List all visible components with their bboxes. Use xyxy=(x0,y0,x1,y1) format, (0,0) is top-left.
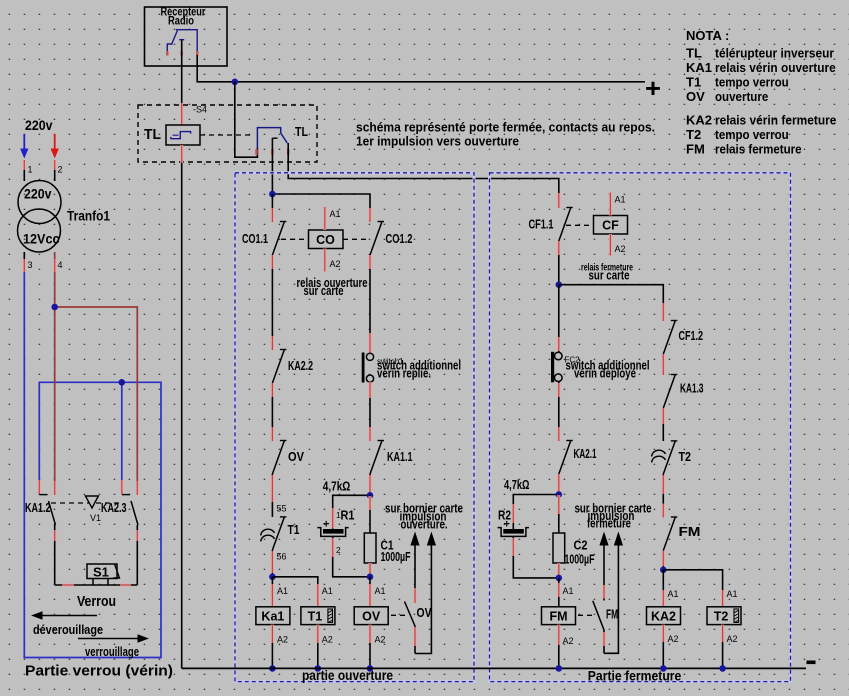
wire junction to CF1.2 branch xyxy=(559,285,664,321)
svg-text:4,7kΩ: 4,7kΩ xyxy=(504,477,530,492)
label Partie verrou (verin) xyxy=(25,663,173,680)
svg-text:A2: A2 xyxy=(668,634,679,644)
wire + bus drop to TL contact xyxy=(235,82,258,157)
arrow verrouillage xyxy=(78,634,149,659)
wire junction to FM coil xyxy=(559,578,574,607)
wire secondary pin 3 xyxy=(24,252,32,272)
svg-text:vérin replié.: vérin replié. xyxy=(377,367,431,381)
svg-text:T1: T1 xyxy=(308,610,323,624)
node junction R1 top xyxy=(333,492,374,529)
relay coil FM xyxy=(542,607,576,625)
svg-text:4,7kΩ: 4,7kΩ xyxy=(323,479,351,494)
dashed link TL coil to contact xyxy=(200,134,253,136)
svg-text:A1: A1 xyxy=(615,195,626,205)
svg-text:KA1.2: KA1.2 xyxy=(25,501,51,515)
dashed link FM coil to aux xyxy=(578,614,593,616)
svg-text:OV: OV xyxy=(417,606,433,620)
wire T2 contact to FM contact xyxy=(662,474,664,518)
wire junction to T2 coil xyxy=(663,570,737,607)
wire Ka1 A2 to bus xyxy=(269,625,288,672)
svg-text:FM: FM xyxy=(686,142,705,157)
wire KA1.1 to junction xyxy=(369,474,371,495)
label sur bornier carte impulsion fermeture xyxy=(575,502,652,531)
svg-text:4: 4 xyxy=(58,260,63,270)
wire junction to T1 coil xyxy=(272,577,332,607)
svg-text:T1: T1 xyxy=(288,523,300,537)
wire FM aux loop to arrow2 xyxy=(604,545,618,653)
wire OV to T1 contact xyxy=(272,474,286,517)
svg-text:T2: T2 xyxy=(679,450,692,464)
contact OV ouverture xyxy=(272,427,304,488)
timed contact T1 xyxy=(261,517,300,562)
wire red branch to KA2.3 xyxy=(55,307,138,495)
svg-text:sur carte: sur carte xyxy=(304,283,344,298)
contact CO1.2 xyxy=(370,208,413,269)
svg-text:ouverture.: ouverture. xyxy=(401,518,448,532)
contact KA2.1 xyxy=(559,427,597,488)
dashed link KA1.2-V1-KA2.3 xyxy=(51,502,123,504)
actuator S1 xyxy=(87,564,120,585)
node junction + bus xyxy=(232,79,239,86)
svg-text:55: 55 xyxy=(277,504,287,514)
relay coil Ka1 xyxy=(256,607,290,625)
wire TL throw1 to ouverture xyxy=(271,138,273,194)
svg-text:Partie fermeture: Partie fermeture xyxy=(588,668,682,684)
wire KA2 A2 to bus xyxy=(660,625,679,672)
svg-text:verrouillage: verrouillage xyxy=(85,645,139,659)
contact KA2.3 xyxy=(101,480,138,585)
svg-text:ouverture: ouverture xyxy=(715,89,768,104)
svg-text:1er impulsion vers ouverture: 1er impulsion vers ouverture xyxy=(356,134,519,149)
aux contact OV bornier xyxy=(405,545,433,654)
node junction below C1 xyxy=(367,574,374,581)
contact CO1.1 xyxy=(242,208,286,269)
svg-text:CO1.1: CO1.1 xyxy=(242,232,268,246)
svg-text:A2: A2 xyxy=(375,635,386,645)
wire C1 branch xyxy=(369,495,371,533)
svg-text:A2: A2 xyxy=(563,636,574,646)
svg-text:OV: OV xyxy=(362,610,381,624)
dashed box -S4 telerupteur xyxy=(138,105,317,163)
wire CO pin A2 xyxy=(325,249,341,272)
svg-text:R1: R1 xyxy=(341,509,355,523)
wire KA2.2 to OV xyxy=(271,397,273,441)
wire junction to Ka1 coil xyxy=(272,577,288,607)
svg-text:OV: OV xyxy=(686,89,705,104)
arrow bornier ouverture 1 xyxy=(410,532,419,546)
relay coil CF xyxy=(594,216,628,235)
wire CF pin A1 xyxy=(610,193,625,216)
svg-text:KA2.2: KA2.2 xyxy=(288,359,313,373)
svg-text:Radio: Radio xyxy=(168,14,194,28)
arrow bornier fermeture 2 xyxy=(614,532,623,546)
contact KA1.2 xyxy=(25,480,56,585)
svg-text:Tranfo1: Tranfo1 xyxy=(67,209,110,224)
svg-text:A1: A1 xyxy=(322,586,333,596)
svg-text:1000µF: 1000µF xyxy=(565,553,595,567)
svg-text:T2: T2 xyxy=(714,610,729,624)
svg-text:12Vcc: 12Vcc xyxy=(23,232,60,247)
svg-text:A2: A2 xyxy=(615,244,626,254)
wire junction to KA2 coil xyxy=(663,570,678,607)
timed contact T2 xyxy=(652,441,691,474)
node junction red pole xyxy=(51,304,58,311)
diode V1 xyxy=(85,496,101,523)
capacitor C1 xyxy=(364,533,410,564)
svg-text:relais vérin ouverture: relais vérin ouverture xyxy=(715,60,836,75)
wire OV A2 to bus xyxy=(367,625,386,672)
svg-text:V1: V1 xyxy=(90,513,101,523)
svg-text:A2: A2 xyxy=(322,635,333,645)
svg-text:S1: S1 xyxy=(93,565,109,580)
svg-text:CF1.2: CF1.2 xyxy=(679,329,704,343)
svg-text:FM: FM xyxy=(606,608,618,622)
wire CF1.1 to junction xyxy=(558,255,560,285)
node junction fermeture split xyxy=(556,281,563,288)
wire C2 branch xyxy=(558,495,560,534)
wire FM contact to junction xyxy=(662,551,664,570)
svg-text:CF1.1: CF1.1 xyxy=(529,218,554,232)
capacitor-style resistor R2 xyxy=(498,509,529,537)
wire switch1 to KA1.1 xyxy=(369,382,371,441)
svg-text:A2: A2 xyxy=(727,634,738,644)
wire KA2.1 to junction xyxy=(558,474,560,495)
label 4,7kOhm R1 xyxy=(323,479,351,494)
svg-text:2: 2 xyxy=(58,165,63,175)
svg-text:TL: TL xyxy=(144,126,161,143)
svg-text:relais fermeture: relais fermeture xyxy=(715,142,802,157)
contact TL changeover xyxy=(257,125,309,155)
wire blue branch to KA2.3 xyxy=(121,382,123,480)
svg-text:2: 2 xyxy=(336,545,341,555)
wire CF pin A2 xyxy=(610,234,625,256)
svg-text:tempo verrou: tempo verrou xyxy=(715,75,789,90)
svg-text:T1: T1 xyxy=(686,75,701,90)
svg-text:FM: FM xyxy=(679,525,701,539)
svg-text:+: + xyxy=(645,73,661,103)
svg-text:+: + xyxy=(323,519,329,531)
contact CF1.1 xyxy=(529,194,573,255)
svg-text:3: 3 xyxy=(28,260,33,270)
svg-text:1: 1 xyxy=(28,165,33,175)
node junction above Ka1 xyxy=(269,574,276,581)
wire OV aux loop to arrow2 xyxy=(415,545,431,654)
wire primary pin 2 xyxy=(55,160,63,181)
wire junction to FC2 xyxy=(558,285,560,352)
svg-text:C2: C2 xyxy=(574,539,588,553)
svg-text:sur carte: sur carte xyxy=(589,268,630,283)
arrow bornier fermeture 1 xyxy=(599,532,608,546)
wire FC2 to KA2.1 xyxy=(558,382,560,442)
label relais ouverture sur carte xyxy=(297,275,368,298)
svg-text:KA2.1: KA2.1 xyxy=(574,447,597,461)
wire receiver to TL coil xyxy=(181,40,183,125)
aux contact FM bornier xyxy=(593,545,618,653)
svg-text:déverouillage: déverouillage xyxy=(33,623,103,637)
svg-text:schéma représenté porte fermée: schéma représenté porte fermée, contacts… xyxy=(356,120,655,135)
wire 12V red pole xyxy=(54,272,56,495)
svg-text:CF: CF xyxy=(602,219,619,233)
wire verrou bottom rail xyxy=(55,584,138,586)
limit switch switch1 xyxy=(362,353,461,383)
svg-text:relais vérin fermeture: relais vérin fermeture xyxy=(715,113,836,128)
svg-text:1000µF: 1000µF xyxy=(381,550,411,564)
svg-text:TL: TL xyxy=(686,46,702,61)
wire R1 bottom to junction xyxy=(333,536,370,576)
wire junction to OV coil xyxy=(370,577,386,607)
wire TL throw2 to fermeture xyxy=(288,143,559,208)
label - terminal xyxy=(807,661,816,665)
svg-text:télérupteur inverseur: télérupteur inverseur xyxy=(715,46,834,61)
svg-text:-S4: -S4 xyxy=(193,105,207,115)
svg-text:OV: OV xyxy=(288,450,305,464)
svg-text:CO: CO xyxy=(316,233,335,247)
relay coil OV xyxy=(354,607,388,625)
svg-text:KA1.3: KA1.3 xyxy=(680,382,704,396)
node junction verrou top xyxy=(119,379,126,386)
svg-text:KA1.1: KA1.1 xyxy=(387,450,413,464)
svg-text:56: 56 xyxy=(277,552,287,562)
wire CO1.1 branch top xyxy=(271,194,273,222)
limit switch FC2 xyxy=(551,352,650,383)
svg-text:A1: A1 xyxy=(277,586,288,596)
svg-text:KA2: KA2 xyxy=(686,113,712,128)
svg-text:KA2: KA2 xyxy=(651,610,676,624)
timer coil T2 xyxy=(707,607,741,625)
wire FM A2 to bus xyxy=(556,625,574,672)
relay coil TL xyxy=(166,125,200,145)
dashed link CO1.1-CO-CO1.2 xyxy=(281,238,367,240)
svg-text:A1: A1 xyxy=(727,589,738,599)
wire secondary pin 4 xyxy=(55,252,63,272)
label Verrou xyxy=(77,593,116,610)
transformer Tranfo1 xyxy=(18,181,111,253)
svg-text:vérin deployé: vérin deployé xyxy=(574,367,636,381)
contact KA2.2 xyxy=(272,336,313,397)
note schema xyxy=(356,120,655,149)
contact inside receiver xyxy=(167,30,197,56)
wire neutral with red arrow xyxy=(51,134,59,159)
node junction ouverture top xyxy=(269,191,370,208)
arrow deverouillage xyxy=(31,611,103,637)
wire T1 A2 to bus xyxy=(315,625,333,672)
svg-text:220v: 220v xyxy=(24,187,52,202)
wire receiver to + bus xyxy=(197,55,235,82)
wire phase with blue arrow xyxy=(20,134,28,159)
svg-text:A1: A1 xyxy=(330,209,341,219)
dashed link OV coil to aux xyxy=(391,614,406,616)
label 220v mains xyxy=(25,117,53,133)
dashed box Partie fermeture xyxy=(490,173,791,684)
relay coil CO xyxy=(309,230,344,249)
wire 12V blue pole routing xyxy=(24,272,161,658)
svg-text:tempo verrou: tempo verrou xyxy=(715,127,789,142)
svg-text:fermeture: fermeture xyxy=(587,517,631,531)
capacitor-style resistor R1 xyxy=(317,509,354,556)
wire C2 to junction xyxy=(558,563,560,578)
node junction R2 top xyxy=(513,491,562,529)
contact CF1.2 xyxy=(663,307,703,368)
contact KA1.3 xyxy=(663,361,703,422)
svg-text:KA2.3: KA2.3 xyxy=(101,501,127,515)
label sur bornier carte impulsion ouverture xyxy=(385,502,463,532)
svg-text:A1: A1 xyxy=(563,586,574,596)
svg-text:A1: A1 xyxy=(668,589,679,599)
wire - bus bottom xyxy=(182,667,806,669)
svg-text:220v: 220v xyxy=(25,117,53,133)
svg-text:CO1.2: CO1.2 xyxy=(386,232,413,246)
svg-text:KA1: KA1 xyxy=(686,60,712,75)
svg-text:NOTA :: NOTA : xyxy=(686,28,729,43)
capacitor C2 xyxy=(553,533,595,567)
dashed link CF1.1-CF xyxy=(566,224,594,226)
receiver box Recepteur Radio xyxy=(145,5,228,67)
label + terminal xyxy=(645,73,661,103)
timer coil T1 xyxy=(301,607,335,625)
svg-text:A2: A2 xyxy=(277,635,288,645)
wire R2 bottom to junction xyxy=(513,536,559,578)
wire primary pin 1 xyxy=(24,160,32,181)
legend NOTA xyxy=(686,28,836,157)
arrow bornier ouverture 2 xyxy=(427,532,436,546)
wire T1 contact to junction xyxy=(271,550,273,577)
svg-text:Ka1: Ka1 xyxy=(261,610,284,624)
svg-text:A2: A2 xyxy=(330,259,341,269)
relay coil KA2 xyxy=(647,607,681,625)
node junction KA2/T2 xyxy=(660,567,667,574)
svg-text:T2: T2 xyxy=(686,127,701,142)
svg-text:+: + xyxy=(504,519,510,531)
node junction below C2 xyxy=(556,575,563,582)
wire CO pin A1 xyxy=(325,207,341,230)
svg-text:FM: FM xyxy=(549,610,567,624)
wire T2 A2 to bus xyxy=(719,625,737,672)
svg-text:TL: TL xyxy=(295,125,308,139)
wire + bus xyxy=(235,81,645,83)
label 4,7kOhm R2 xyxy=(504,477,530,492)
wire KA1.3 to T2 contact xyxy=(662,408,664,441)
svg-text:A1: A1 xyxy=(375,586,386,596)
wire CO1.2 to switch1 xyxy=(369,269,371,353)
contact FM aux chain xyxy=(663,504,700,565)
label relais fermeture sur carte xyxy=(581,262,633,283)
contact KA1.1 xyxy=(370,427,413,488)
wire CO1.1 to KA2.2 xyxy=(271,269,273,350)
svg-text:Partie verrou (vérin): Partie verrou (vérin) xyxy=(25,663,173,680)
svg-text:Verrou: Verrou xyxy=(77,593,116,610)
wire C1 to junction xyxy=(369,563,371,577)
dashed box partie ouverture xyxy=(235,173,474,683)
wire TL coil to - bus xyxy=(181,145,183,668)
